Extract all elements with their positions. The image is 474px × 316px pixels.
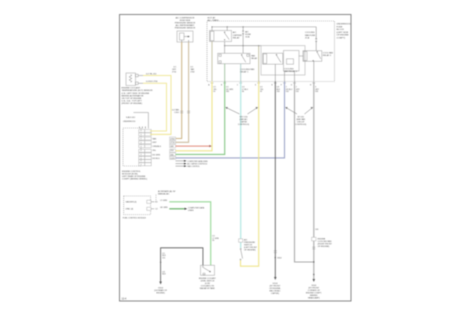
svg-text:531: 531 (296, 91, 299, 93)
wire: dark green data stub (169, 208, 184, 210)
svg-text:59: 59 (260, 91, 262, 93)
ground arrow gray circuit (313, 279, 316, 282)
svg-text:FUSE: FUSE (337, 26, 343, 28)
wire: gray fan feed 2 (313, 82, 315, 280)
svg-text:ENGINE COOLANT: ENGINE COOLANT (122, 87, 141, 90)
svg-text:OF ENGINE: OF ENGINE (337, 35, 350, 37)
wire: ECT yellow wire pin B (143, 83, 167, 131)
svg-text:FAN RELAY 2: FAN RELAY 2 (284, 70, 298, 73)
wire: relay K3 output to edge (274, 64, 276, 81)
label: fuse F1 (245, 30, 251, 38)
svg-text:LPAC (4): LPAC (4) (126, 208, 134, 211)
relay K2 cooling fan relay 1 (218, 53, 250, 63)
svg-text:99: 99 (212, 240, 214, 242)
label: fuse F2 (305, 32, 316, 39)
svg-text:533: 533 (315, 229, 318, 231)
svg-text:BEHIND ALTERNATOR: BEHIND ALTERNATOR (122, 94, 144, 97)
svg-text:(FRONT OF ENGINE): (FRONT OF ENGINE) (122, 103, 143, 105)
svg-text:RADIATOR TANK: RADIATOR TANK (200, 287, 216, 290)
wire: relay K1 coil bottom down to block edge (211, 42, 213, 82)
alternate harness dashed note (151, 194, 156, 202)
wire: bus drop to relay K1 contact (226, 27, 228, 31)
wire: row5 orange wire with arrow (176, 145, 210, 147)
svg-text:DK GRN: DK GRN (160, 207, 168, 209)
svg-text:RELAY: RELAY (251, 57, 258, 60)
connector ticks on black wire (274, 251, 277, 253)
wire code labels below fuse block (213, 87, 319, 94)
ground distribution stub above ECM (123, 113, 148, 129)
module U1 ECM dashed outline (123, 128, 141, 166)
label: underhood fuse block name (right of box) (337, 24, 352, 40)
svg-text:MANUAL A/C: MANUAL A/C (158, 192, 170, 195)
svg-text:66: 66 (242, 91, 244, 93)
wire: gray fan feed 1 (295, 82, 314, 263)
svg-text:OF ENGINE): OF ENGINE) (318, 246, 330, 248)
splice on black wire (160, 262, 161, 263)
svg-text:DK BLU: DK BLU (152, 158, 160, 160)
wire: drop from feed line to yellow exit (258, 46, 260, 82)
svg-text:UNDERHOOD: UNDERHOOD (337, 24, 352, 26)
svg-text:C100: C100 (174, 112, 179, 114)
wire: horizontal feed at y=45.7 (225, 45, 261, 47)
callout arrows pair 2 (285, 107, 313, 126)
connector on gray wire 2 (312, 237, 316, 241)
label: light green wire code (212, 236, 219, 243)
node: data line reference arrows (176, 160, 209, 168)
connector pin marks at block bottom edge (211, 82, 316, 84)
wire: sensor tan wire 1 (176, 42, 182, 139)
svg-text:COMPUTER DATA LINES: COMPUTER DATA LINES (187, 160, 208, 163)
svg-text:COMPT (BEHIND WHEEL): COMPT (BEHIND WHEEL) (122, 179, 148, 181)
label: ECT sensor (122, 87, 154, 106)
svg-text:CMPSR): CMPSR) (271, 293, 279, 295)
relay K1 A/C compressor relay (210, 31, 232, 42)
label: relay K2 side (251, 55, 258, 60)
svg-text:A/C: A/C (245, 30, 249, 33)
resistor module box inside (284, 51, 300, 72)
wire: resistor module outputs to edge (284, 71, 286, 82)
svg-text:0.4 YEL 410: 0.4 YEL 410 (146, 73, 156, 75)
svg-text:0.4 BLK 2760: 0.4 BLK 2760 (146, 81, 157, 83)
svg-text:12-4: 12-4 (122, 298, 127, 301)
svg-text:GAUGES (4): GAUGES (4) (126, 201, 137, 204)
svg-text:DK GRN: DK GRN (152, 154, 160, 156)
svg-text:UNDERHOOD: UNDERHOOD (123, 121, 136, 123)
wire: power bus (212, 26, 316, 28)
svg-text:BLOCK: BLOCK (337, 29, 345, 31)
svg-text:TAN: TAN (152, 137, 156, 140)
svg-text:HEADLAMP): HEADLAMP) (308, 296, 320, 299)
svg-text:150: 150 (277, 91, 280, 93)
svg-text:COMPT): COMPT) (337, 38, 346, 40)
label: cooling fan relay 2 (284, 69, 298, 74)
label: ECT wire codes (146, 73, 157, 83)
svg-text:S114: S114 (277, 258, 281, 260)
node junction of gray wires (313, 261, 314, 262)
sensor B1 A/C pressure sensor box (177, 31, 193, 42)
svg-text:ORN/BLK: ORN/BLK (152, 146, 161, 148)
svg-text:COOLING FAN: COOLING FAN (240, 68, 255, 71)
svg-text:CONTROLS): CONTROLS) (238, 124, 250, 126)
svg-text:C1: C1 (155, 202, 157, 204)
relay K3 (263, 53, 283, 64)
label: black wire codes (162, 253, 166, 260)
svg-text:ENGINE): ENGINE) (156, 292, 165, 294)
module box around relays K3/K4 (261, 46, 305, 75)
wire: black ground from coolant switch (161, 248, 203, 282)
label: A/C pressure switch (244, 239, 258, 252)
connector code cells (170, 137, 176, 159)
wire: row6 yellow to fuse block (176, 82, 213, 151)
wire: black ground from fuse block (274, 82, 276, 278)
splice S114 on black wire (275, 257, 276, 258)
fuse F1 A/C fuse (243, 27, 244, 53)
callout arrows pair 1 (226, 107, 258, 126)
wire: light blue A/C pressure cutoff (240, 82, 242, 249)
svg-text:LT GRN: LT GRN (160, 200, 167, 202)
connector C100 ticks on sensor wires (180, 111, 190, 113)
svg-text:LINES: LINES (188, 210, 194, 212)
svg-text:C2: C2 (155, 209, 157, 211)
svg-text:RELAY 1: RELAY 1 (240, 70, 249, 73)
svg-text:25 A: 25 A (305, 36, 310, 39)
switch S1 pressure switch contact (240, 248, 243, 260)
wire: relay K4 output to edge (313, 61, 315, 81)
svg-text:RELAY: RELAY (233, 36, 240, 39)
svg-text:ALL TIMES: ALL TIMES (208, 19, 220, 22)
labels: pin ids at block edge (208, 83, 312, 86)
svg-text:FAN FUSE: FAN FUSE (305, 34, 316, 37)
relay K4 cooling fan relay 3 (303, 51, 322, 62)
label: A/C refrigerant pressure sensor (175, 17, 196, 30)
wire: yellow from fuse block to pressure switch (241, 82, 259, 267)
sensor B2 engine coolant temperature sensor (126, 73, 143, 86)
switch S2 coolant level switch box (201, 265, 215, 275)
svg-text:533: 533 (315, 91, 318, 93)
wire: row2 yellow jumper (150, 133, 171, 135)
wire: pin stub row1 (151, 202, 154, 209)
labels: row wire names (152, 137, 175, 159)
svg-text:PRESSURE SENSOR: PRESSURE SENSOR (175, 28, 196, 30)
wire: ECT yellow wire pin A (143, 76, 171, 135)
svg-text:OF ENGINE): OF ENGINE) (244, 250, 256, 252)
svg-text:FUEL CONTROL MODULE: FUEL CONTROL MODULE (123, 218, 147, 220)
svg-text:2710: 2710 (172, 71, 176, 73)
label: ECM name (122, 171, 148, 181)
svg-text:CONTROLS): CONTROLS) (295, 124, 307, 126)
wire: relay K1 output to row-2 feed line (224, 42, 226, 54)
svg-text:FAN CONTROL: FAN CONTROL (187, 165, 199, 168)
label: relay K1 (233, 31, 243, 39)
svg-text:S-BLK 451: S-BLK 451 (126, 117, 135, 119)
fuse F2 cooling fan fuse (316, 27, 317, 51)
connector C2 on light blue wire (239, 239, 243, 242)
underhood fuse block dashed outline (207, 21, 335, 82)
wire: light green to coolant level switch (169, 202, 210, 265)
node junction dots on bus (211, 26, 243, 27)
label: connector C100 (172, 108, 179, 114)
svg-text:A/C: A/C (233, 31, 237, 34)
frame border of schematic page (120, 15, 352, 302)
svg-text:59: 59 (213, 91, 215, 93)
label: relay K4 (323, 51, 334, 57)
wire: row1 yellow jumper (150, 130, 167, 132)
label: sensor wire codes (172, 67, 195, 74)
ground G104 arrow (black wire) (274, 277, 277, 280)
connector pin rows of ECM (139, 130, 152, 166)
svg-text:151: 151 (162, 257, 165, 259)
node pin stubs at table top (140, 127, 146, 129)
svg-text:RELAY 3: RELAY 3 (323, 54, 332, 57)
svg-text:335: 335 (226, 91, 229, 93)
svg-text:TEMPERATURE (ECT) SENSOR: TEMPERATURE (ECT) SENSOR (122, 89, 154, 92)
label: engine cooling fan (318, 239, 333, 249)
svg-text:F: F (281, 84, 282, 86)
svg-text:10 A: 10 A (245, 36, 250, 39)
svg-text:2702: 2702 (190, 71, 194, 73)
wire: row8 dark blue to fuse block (176, 82, 285, 158)
ground G104 arrow (coolant switch) (159, 282, 162, 285)
svg-text:GRY: GRY (152, 142, 157, 144)
wire: bus drop to relay K1 coil (211, 27, 213, 31)
node: HOT AT ALL TIMES label (208, 16, 220, 22)
wire: relay K2 outputs down to block edge (224, 64, 226, 82)
svg-text:LEFT REAR OF ENGINE: LEFT REAR OF ENGINE (122, 175, 146, 178)
label: relay K2 (240, 68, 255, 74)
wire: link module box to relay K4 (299, 55, 303, 57)
wire: sensor tan wire 2 (176, 42, 189, 142)
svg-text:ALTERNATE (A): W/: ALTERNATE (A): W/ (158, 190, 176, 193)
module U2 fuel control module dashed box (124, 196, 151, 215)
wire: row7 dark green to fuse block (176, 82, 225, 155)
svg-text:(LEFT SIDE: (LEFT SIDE (337, 32, 349, 34)
wire: ground jumper into ECM (134, 113, 149, 129)
label: coolant level switch (199, 277, 217, 290)
svg-text:532: 532 (286, 91, 289, 93)
splice on gray wire (313, 274, 314, 275)
